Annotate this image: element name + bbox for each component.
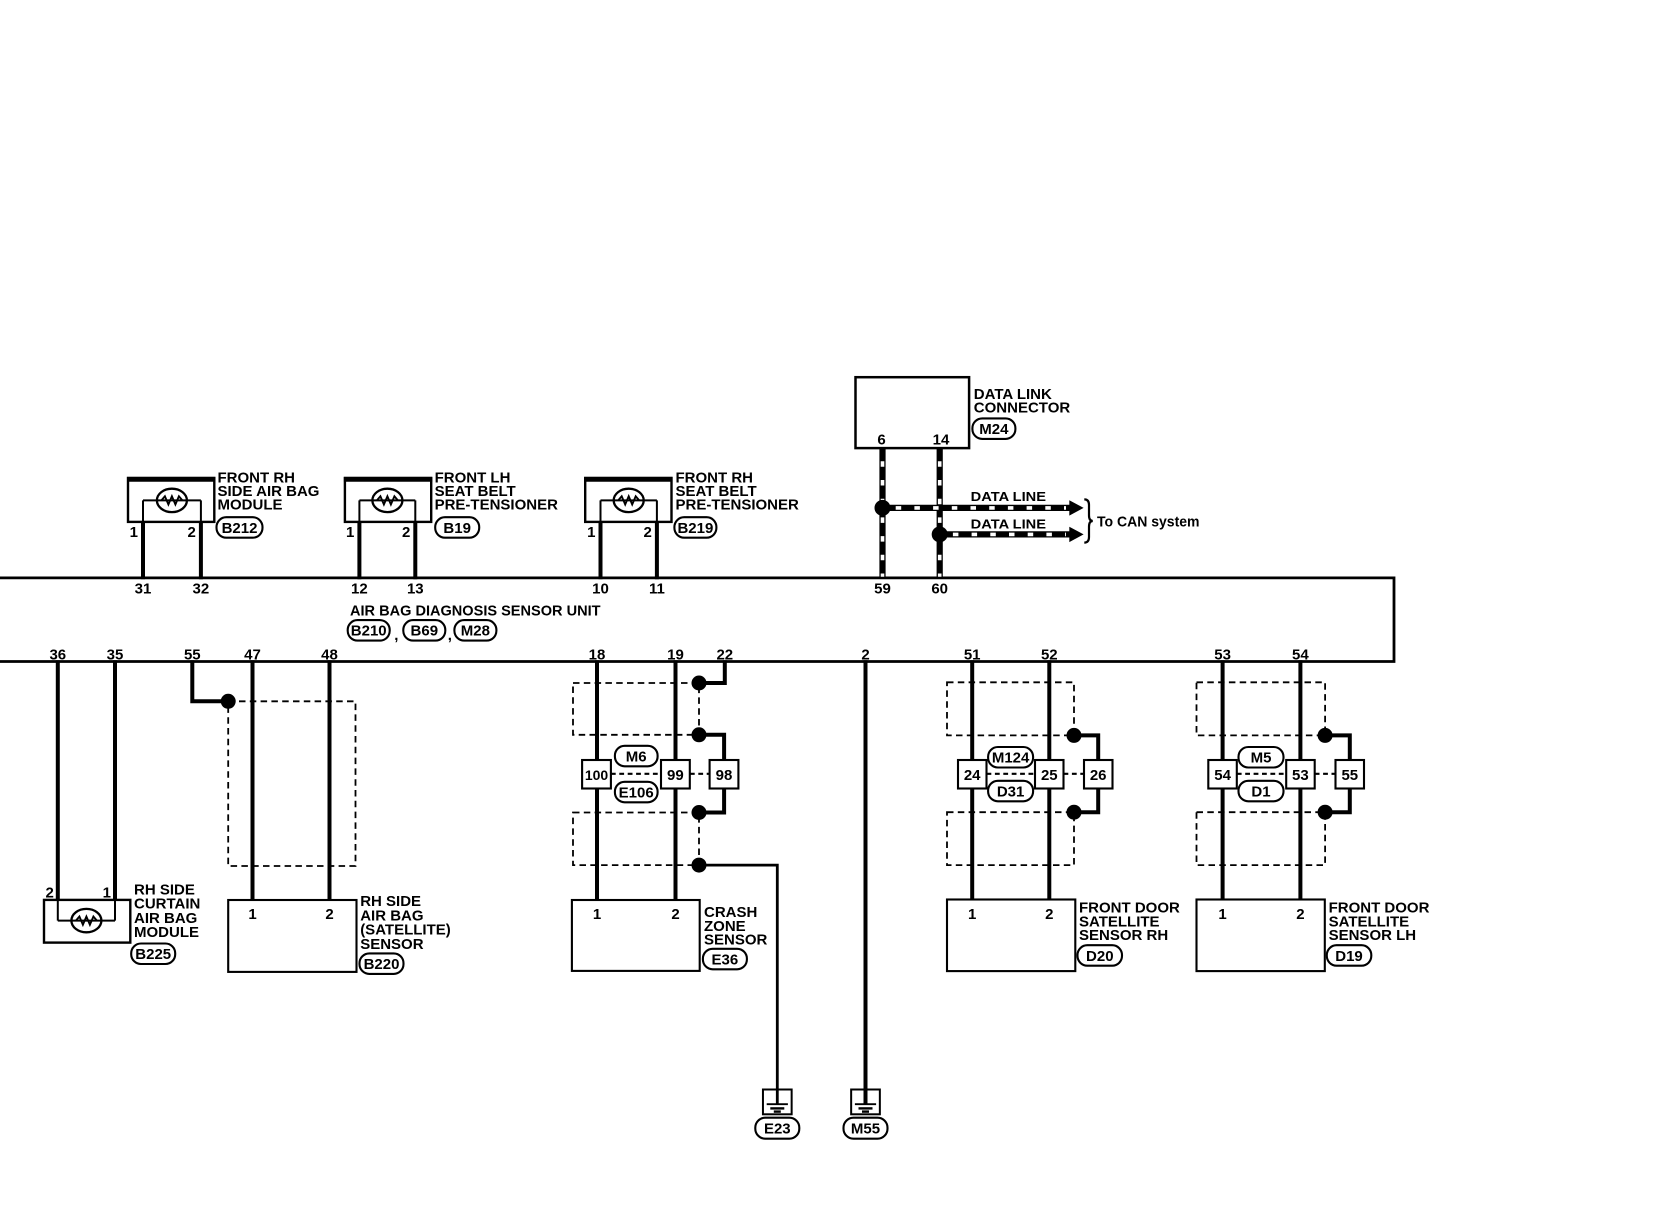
svg-text:B225: B225 <box>135 946 171 963</box>
wire B212 pin 1 to unit pin 31 <box>141 522 145 579</box>
svg-text:RH SIDECURTAINAIR BAGMODULE: RH SIDECURTAINAIR BAGMODULE <box>134 881 200 941</box>
svg-text:To CAN system: To CAN system <box>1097 514 1200 531</box>
crash zone sensor E36 box <box>572 900 700 971</box>
shield junction dot (lower shield top) <box>692 805 707 820</box>
connector tag M124 <box>988 747 1033 768</box>
wire upper shield to connector pin 55 <box>1325 735 1350 761</box>
connector tag M24 <box>972 418 1015 439</box>
connector pin box 55 <box>1336 760 1365 789</box>
wire connector pin 26 to lower shield <box>1074 789 1098 813</box>
svg-text:,: , <box>394 627 398 644</box>
svg-text:10: 10 <box>592 580 609 597</box>
dashed link wire between connector pins 100-99-98 <box>611 773 710 775</box>
svg-text:M24: M24 <box>979 421 1009 438</box>
shield junction dot (upper, D20) <box>1067 728 1082 743</box>
svg-text:11: 11 <box>649 580 665 597</box>
svg-text:98: 98 <box>716 767 733 784</box>
svg-text:2: 2 <box>671 906 679 923</box>
svg-text:26: 26 <box>1090 767 1107 784</box>
connector tag M28 <box>454 620 496 641</box>
wire unit pin 18 to E36 pin 1 <box>595 660 599 900</box>
air bag diagnosis sensor unit box (bus band) <box>0 578 1394 662</box>
ground M55 symbol <box>851 1090 880 1115</box>
data line 2 arrowhead <box>1069 527 1083 542</box>
svg-text:1: 1 <box>968 906 976 923</box>
front LH seat belt pre-tensioner B19 <box>344 478 432 522</box>
dashed link wire between connector pins 24-25-26 <box>987 773 1085 775</box>
wire unit pin 35 to B225 pin 1 <box>113 660 117 900</box>
svg-text:32: 32 <box>193 580 210 597</box>
svg-text:B210: B210 <box>351 623 387 640</box>
wire unit pin 51 to D20 pin 1 <box>970 660 974 899</box>
connector tag M55 <box>844 1118 888 1139</box>
connector tag E36 <box>703 949 747 970</box>
wire upper shield to connector pin 98 <box>699 735 724 761</box>
connector pin box 54 <box>1208 760 1237 789</box>
svg-text:99: 99 <box>667 767 684 784</box>
svg-text:M28: M28 <box>461 623 490 640</box>
data line 2 (CAN-L) <box>940 531 1070 537</box>
connector pin box 53 <box>1286 760 1315 789</box>
dashed link wire between connector pins 54-53-55 <box>1237 773 1336 775</box>
svg-text:2: 2 <box>45 885 53 902</box>
shield junction dot (upper shield to connector) <box>692 727 707 742</box>
svg-text:E36: E36 <box>712 951 739 968</box>
lower shield dashed box (D19 wires) <box>1197 812 1326 865</box>
data line 1 arrowhead <box>1069 500 1083 515</box>
svg-text:100: 100 <box>585 767 609 783</box>
svg-text:1: 1 <box>103 885 111 902</box>
connector tag D20 <box>1078 945 1123 966</box>
wire unit pin 47 to B220 pin 1 <box>251 660 255 900</box>
connector tag E23 <box>755 1118 799 1139</box>
svg-text:DATA LINE: DATA LINE <box>971 489 1047 504</box>
wire B19 pin 2 to unit pin 13 <box>413 522 417 579</box>
RH side air bag (satellite) sensor B220 box <box>228 900 356 972</box>
svg-text:2: 2 <box>325 906 333 923</box>
wire B219 pin 1 to unit pin 10 <box>599 522 603 579</box>
svg-text:55: 55 <box>1341 767 1358 784</box>
wire B219 pin 2 to unit pin 11 <box>655 522 659 579</box>
svg-text:M6: M6 <box>626 748 647 765</box>
connector tag B219 <box>674 517 716 538</box>
lower shield dashed box (E36 wires) <box>573 813 699 866</box>
connector tag D1 <box>1239 781 1284 802</box>
connector tag M6 <box>615 746 658 767</box>
data link connector M24 box <box>856 377 970 448</box>
front door satellite sensor LH D19 box <box>1197 900 1325 972</box>
wire B212 pin 2 to unit pin 32 <box>199 522 203 579</box>
brace to CAN system <box>1084 499 1093 542</box>
wire unit pin 22 to shield junction <box>699 660 725 683</box>
svg-text:M124: M124 <box>992 750 1030 767</box>
wire shield to ground E23 <box>699 865 777 1104</box>
connector tag D31 <box>988 781 1033 802</box>
svg-text:24: 24 <box>964 767 981 784</box>
svg-text:M5: M5 <box>1251 750 1272 767</box>
svg-text:53: 53 <box>1292 767 1309 784</box>
svg-text:2: 2 <box>1045 906 1053 923</box>
svg-text:54: 54 <box>1214 767 1231 784</box>
connector tag B225 <box>131 944 175 965</box>
connector pin box 98 <box>710 760 739 789</box>
lower shield dashed box (D20 wires) <box>947 812 1074 865</box>
wire unit pin 53 to D19 pin 1 <box>1221 660 1225 899</box>
svg-text:E23: E23 <box>764 1121 791 1138</box>
junction dot on pin 14 wire <box>932 526 948 542</box>
svg-text:D20: D20 <box>1086 948 1114 965</box>
svg-text:,: , <box>448 627 452 644</box>
upper shield dashed box (E36 wires) <box>573 683 699 735</box>
shield junction dot (lower, D19) <box>1318 805 1333 820</box>
wire connector pin 55 to lower shield <box>1325 789 1350 813</box>
svg-text:B19: B19 <box>443 520 471 537</box>
wire connector pin 98 to lower shield <box>699 789 724 813</box>
svg-text:B212: B212 <box>222 520 258 537</box>
shield junction dot (to ground E23) <box>692 858 707 873</box>
connector pin box 24 <box>958 760 987 789</box>
svg-text:25: 25 <box>1041 767 1058 784</box>
connector tag B212 <box>217 517 263 538</box>
svg-text:D19: D19 <box>1335 948 1363 965</box>
svg-text:14: 14 <box>933 432 950 449</box>
shield dashed box around B220 wires <box>228 701 355 866</box>
svg-text:1: 1 <box>130 524 138 541</box>
upper shield dashed box (D19 wires) <box>1197 682 1326 735</box>
connector pin box 25 <box>1035 760 1064 789</box>
svg-text:1: 1 <box>1218 906 1226 923</box>
svg-text:1: 1 <box>248 906 256 923</box>
svg-text:B69: B69 <box>411 623 439 640</box>
svg-text:2: 2 <box>644 524 652 541</box>
connector tag B69 <box>403 620 445 641</box>
connector tag M5 <box>1239 747 1284 768</box>
svg-text:2: 2 <box>188 524 196 541</box>
wire unit pin 52 to D20 pin 2 <box>1047 660 1051 899</box>
wire unit pin 36 to B225 pin 2 <box>56 660 60 900</box>
data line 1 (CAN-H) <box>883 505 1071 511</box>
svg-text:2: 2 <box>1296 906 1304 923</box>
connector pin box 26 <box>1084 760 1113 789</box>
RH side curtain air bag module B225 <box>44 900 130 943</box>
connector tag E106 <box>615 782 658 803</box>
front RH side air bag module B212 <box>127 478 215 522</box>
svg-text:31: 31 <box>135 580 152 597</box>
upper shield dashed box (D20 wires) <box>947 682 1074 735</box>
svg-text:13: 13 <box>407 580 424 597</box>
svg-text:DATA LINE: DATA LINE <box>971 517 1047 532</box>
front door satellite sensor RH D20 box <box>947 900 1075 972</box>
svg-text:M55: M55 <box>851 1121 880 1138</box>
svg-text:D1: D1 <box>1251 783 1270 800</box>
shield junction dot (lower, D20) <box>1067 805 1082 820</box>
connector pin box 99 <box>661 760 690 789</box>
svg-text:12: 12 <box>351 580 368 597</box>
svg-text:60: 60 <box>931 580 948 597</box>
wire unit pin 2 to ground M55 <box>864 660 868 1104</box>
svg-text:AIR BAG DIAGNOSIS SENSOR UNIT: AIR BAG DIAGNOSIS SENSOR UNIT <box>350 602 601 619</box>
svg-text:1: 1 <box>346 524 354 541</box>
wire unit pin 55 to shield junction <box>192 660 225 701</box>
connector pin box 100 <box>582 760 611 789</box>
shield junction dot (pin 22) <box>692 676 707 691</box>
connector tag B220 <box>360 953 404 974</box>
wire unit pin 19 to E36 pin 2 <box>674 660 678 900</box>
CAN wire M24 pin 14 to unit pin 60 <box>937 448 943 577</box>
svg-text:D31: D31 <box>997 783 1025 800</box>
svg-text:B219: B219 <box>677 520 713 537</box>
shield junction dot (pin 55) <box>221 694 236 709</box>
CAN wire M24 pin 6 to unit pin 59 <box>879 448 885 577</box>
front RH seat belt pre-tensioner B219 <box>584 478 672 522</box>
connector tag B210 <box>348 620 390 641</box>
junction dot on pin 6 wire <box>875 500 891 516</box>
connector tag B19 <box>435 517 479 538</box>
ground E23 symbol <box>763 1090 792 1115</box>
wire upper shield to connector pin 26 <box>1074 735 1098 761</box>
svg-text:B220: B220 <box>364 956 400 973</box>
svg-text:59: 59 <box>874 580 891 597</box>
svg-text:6: 6 <box>877 432 885 449</box>
shield junction dot (upper, D19) <box>1318 728 1333 743</box>
connector tag D19 <box>1327 945 1372 966</box>
svg-text:E106: E106 <box>619 784 654 801</box>
wire unit pin 48 to B220 pin 2 <box>328 660 332 900</box>
svg-text:1: 1 <box>593 906 601 923</box>
svg-text:2: 2 <box>402 524 410 541</box>
wire B19 pin 1 to unit pin 12 <box>357 522 361 579</box>
svg-text:1: 1 <box>587 524 595 541</box>
wire unit pin 54 to D19 pin 2 <box>1298 660 1302 899</box>
